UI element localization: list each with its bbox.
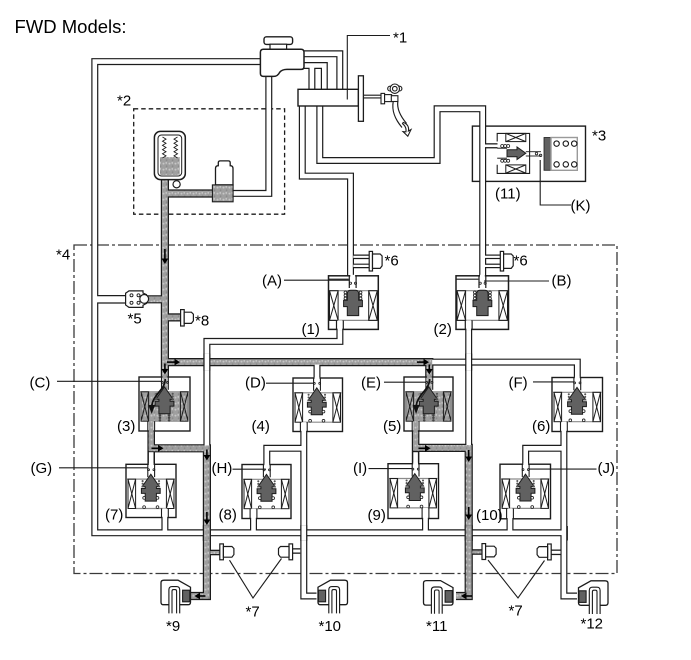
wire pipe fill (fill) [310, 67, 315, 91]
wire pipe fill (fill) [485, 145, 498, 148]
wire pump *5 suction branch (outline) [96, 295, 127, 304]
svg-text:(C): (C) [30, 375, 51, 392]
wire valve2 outlet (fill) [466, 329, 471, 450]
wire reservoir return line and bottom return manifold (outline) [95, 62, 564, 533]
flow arrow down [468, 450, 470, 457]
wire pipe fill (fill) [353, 256, 369, 258]
flow arrow left [467, 595, 473, 597]
valve (7) body [126, 463, 176, 518]
pump motor [216, 161, 234, 185]
wire pipe fill (fill) [302, 106, 350, 277]
wire white manifold continuation (fill) [429, 362, 577, 378]
wire pump output line (outline) [165, 189, 223, 197]
svg-text:*4: *4 [56, 247, 70, 264]
svg-text:*9: *9 [166, 618, 180, 635]
flow arrow down [164, 364, 166, 370]
wire valve (1) outlet down-line (outline) [207, 329, 340, 451]
wire accumulator line (fill) [162, 178, 168, 378]
brake pedal arm [393, 102, 407, 128]
valve (9) body [388, 463, 439, 520]
flow arrow right [167, 361, 175, 363]
svg-text:(11): (11) [495, 186, 521, 203]
leader line (A) [284, 279, 350, 281]
wire accumulator pressure line (outline) [161, 178, 169, 378]
svg-text:*7: *7 [509, 603, 523, 620]
damper *7 c [482, 544, 486, 560]
wire damper *7 c stub (outline) [472, 549, 482, 555]
wire master cylinder output 2 to valve (2) (outline) [320, 106, 483, 277]
svg-text:*6: *6 [385, 253, 399, 270]
flow arrow right [419, 447, 426, 449]
wire valve4 inlet (fill) [315, 365, 320, 379]
svg-text:(8): (8) [219, 507, 237, 524]
wire pipe fill (fill) [485, 265, 501, 267]
svg-text:*12: *12 [581, 616, 604, 633]
wire pipe fill (fill) [304, 66, 324, 91]
svg-text:(4): (4) [252, 418, 270, 435]
svg-text:(B): (B) [552, 273, 572, 290]
leader line (J) [529, 468, 597, 470]
wire valve (8) outlet to return (outline) [250, 508, 257, 533]
wire pipe fill (fill) [267, 448, 304, 465]
svg-text:(2): (2) [434, 321, 452, 338]
wire pipe fill (fill) [508, 508, 513, 533]
leader line (F) [533, 381, 574, 383]
actuator housing box *4 [74, 245, 617, 574]
(K) leader [540, 160, 571, 205]
svg-text:*7: *7 [246, 604, 260, 621]
valve (3) body [139, 376, 190, 432]
wire valve (4) inlet (outline) [314, 363, 321, 379]
wire valve (4) port to wheel cylinder *10 (outline) [304, 431, 317, 596]
wire pump suction (fill) [222, 75, 269, 193]
damper *7 d [548, 544, 552, 560]
wire pipe fill (fill) [146, 296, 165, 302]
svg-text:FWD Models:: FWD Models: [15, 16, 127, 37]
accumulator [154, 131, 185, 179]
svg-text:*6: *6 [514, 253, 528, 270]
wire damper *7 b stub (outline) [292, 548, 300, 554]
check ball [173, 181, 180, 188]
connector *6 (left) [369, 251, 372, 271]
svg-text:*10: *10 [319, 618, 342, 635]
valve (1) body [329, 275, 379, 331]
wire pipe fill (fill) [304, 54, 340, 91]
wire branch to valve (10) (outline) [526, 448, 564, 464]
wire pipe fill (fill) [472, 551, 482, 554]
svg-text:*5: *5 [128, 311, 142, 328]
wheel cylinder *12 [579, 581, 609, 606]
flow arrow down [468, 507, 470, 515]
valve (2) body [456, 275, 509, 331]
svg-text:*2: *2 [117, 93, 131, 110]
wire manifold continuation to valve (6) (outline) [429, 362, 577, 378]
wire to *9 (fill) [149, 448, 207, 596]
flow arrow down [206, 512, 208, 520]
svg-text:(A): (A) [262, 273, 282, 290]
svg-text:(3): (3) [117, 418, 135, 435]
wire valve1 outlet (fill) [207, 329, 340, 450]
valve (4) body [293, 377, 343, 433]
svg-text:*3: *3 [592, 128, 606, 145]
leader line (E) [384, 381, 426, 383]
wire stub to sensor *8 (outline) [167, 313, 182, 321]
component *5 [126, 291, 147, 308]
wire pipe fill (fill) [96, 296, 127, 302]
svg-text:(K): (K) [571, 198, 591, 215]
wire pipe fill (fill) [423, 508, 428, 533]
wire to *11 (fill) [414, 448, 469, 596]
svg-text:(G): (G) [31, 460, 53, 477]
svg-text:(5): (5) [383, 418, 401, 435]
leader line (I) [369, 468, 413, 470]
wire damper *7 a stub (outline) [210, 550, 220, 556]
wire valve (10) outlet to return (outline) [507, 508, 514, 533]
master cylinder *1 [298, 89, 358, 106]
wire pipe fill (fill) [485, 256, 501, 258]
wire stub to connector *6 right upper (outline) [485, 254, 501, 259]
flow arrow right [152, 447, 159, 449]
wire branch to valve (8) (outline) [267, 448, 304, 465]
wire valve (6) port to wheel cylinder *12 (outline) [564, 431, 577, 596]
flow arrow down [164, 249, 166, 259]
flow arrow down [428, 365, 430, 370]
pedal pivot [388, 84, 402, 102]
wire stub to connector *6 left upper (outline) [353, 254, 369, 259]
leader line (G) [59, 467, 148, 469]
wire pipe fill (fill) [292, 550, 300, 553]
svg-text:(1): (1) [302, 321, 320, 338]
wire *12 line (fill) [564, 431, 577, 596]
wire pipe fill (fill) [163, 508, 168, 533]
flow arrow right [417, 361, 424, 363]
wire *10 line (fill) [304, 431, 317, 596]
wire pipe fill (fill) [149, 431, 154, 451]
flow arrow down [206, 450, 208, 456]
wire pipe fill (fill) [526, 448, 564, 464]
solenoid box *3 [472, 126, 585, 181]
wire stub to solenoid (11) (outline) [485, 143, 498, 148]
wire *8 stub (fill) [167, 315, 182, 321]
wire pipe fill (fill) [413, 431, 418, 451]
wire master cylinder port stub (outline) [308, 67, 315, 91]
wire pump out (fill) [165, 191, 223, 197]
svg-text:*1: *1 [393, 30, 407, 47]
wire pump suction from reservoir (outline) [222, 75, 269, 193]
wire pipe fill (fill) [251, 508, 256, 533]
pipe crossing borders [203, 354, 210, 371]
wire pipe fill (fill) [413, 452, 418, 464]
wire reservoir to master cylinder port A (outline) [304, 54, 340, 91]
wire pipe fill (fill) [320, 106, 483, 277]
brake fluid reservoir [260, 37, 304, 77]
wire reservoir to master cylinder port B (outline) [304, 66, 324, 91]
svg-text:(9): (9) [368, 507, 386, 524]
svg-text:(7): (7) [105, 507, 123, 524]
wheel cylinder *11 [424, 581, 454, 606]
wire damper *7 d stub (outline) [551, 549, 561, 555]
leader line (B) [484, 280, 549, 282]
pipe interiors [95, 54, 578, 596]
flow arrow left [200, 595, 206, 597]
*7 leader V right [488, 560, 545, 598]
wire main pressure manifold (gray) (outline) [165, 362, 429, 378]
svg-text:(J): (J) [598, 460, 616, 477]
valve (10) body [500, 463, 551, 520]
valve (8) body [242, 464, 291, 520]
wire tee to wheel cylinder *11 (outline) [416, 448, 469, 596]
pressure sensor *8 [181, 310, 185, 326]
svg-text:(H): (H) [212, 460, 233, 477]
wire valve (3) outlet / valve (7) inlet (outline) [147, 431, 155, 465]
svg-text:*8: *8 [195, 313, 209, 330]
leader line (D) [266, 382, 314, 384]
svg-text:(I): (I) [353, 460, 367, 477]
wire pipe fill (fill) [353, 265, 369, 267]
wire pipe fill (fill) [551, 551, 561, 554]
wire stub to connector *6 left lower (outline) [353, 264, 369, 269]
leader line (H) [233, 468, 267, 470]
svg-text:(10): (10) [476, 507, 503, 524]
svg-text:(E): (E) [361, 375, 381, 392]
*7 leader V left [230, 559, 282, 599]
damper *7 a [220, 544, 224, 560]
wire tee to wheel cylinder *9 (outline) [151, 448, 207, 596]
svg-text:*11: *11 [426, 618, 447, 635]
connector *6 (right) [500, 251, 503, 271]
*1 leader [347, 36, 390, 100]
damper *7 b [289, 544, 293, 560]
svg-text:(F): (F) [509, 375, 528, 392]
wire valve (2) outlet down-line (outline) [465, 329, 472, 451]
svg-text:(6): (6) [532, 418, 550, 435]
valve (5) body [404, 376, 453, 432]
wheel cylinder *9 [161, 580, 191, 605]
pipe network outlines [95, 54, 578, 596]
wire pipe fill (fill) [149, 452, 154, 465]
wire reservoir left + return manifold (fill) [95, 62, 564, 533]
connector (K) block [544, 138, 551, 171]
solenoid valve (11) [497, 133, 542, 173]
wire pump *5 outlet branch (outline) [146, 295, 165, 303]
wire stub to connector *6 right lower (outline) [485, 264, 501, 269]
wire master cylinder output 1 to valve (1) (outline) [302, 106, 350, 277]
wire valve (9) outlet to return (outline) [422, 508, 429, 533]
wheel cylinder *10 [318, 580, 348, 605]
wire valve (5) outlet / valve (9) inlet (outline) [412, 431, 420, 465]
wire main gray line (fill) [165, 362, 429, 378]
pump/accumulator box *2 [134, 109, 285, 214]
leader line (C) [57, 380, 161, 382]
valve (6) body [552, 377, 603, 433]
wire pipe fill (fill) [210, 551, 220, 554]
svg-text:(D): (D) [245, 375, 266, 392]
wire valve (7) outlet to return (outline) [161, 508, 168, 533]
pushrod and clevis [363, 93, 391, 103]
